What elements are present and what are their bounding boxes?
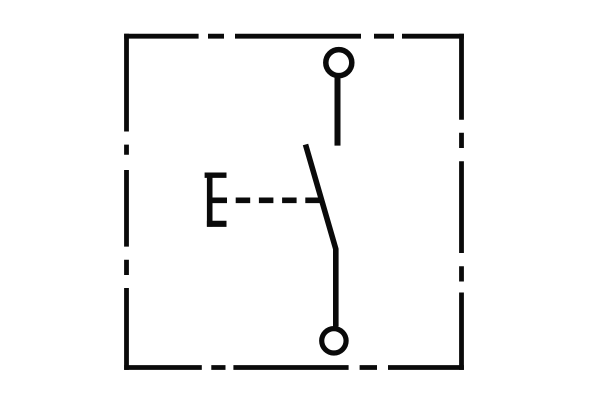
dashed linkage from actuator to blade <box>213 198 323 204</box>
enclosure dashed box: bottom edge <box>124 365 464 370</box>
wire from top terminal <box>335 78 341 146</box>
terminal circle bottom <box>322 329 346 353</box>
manual actuator E: top arm <box>205 172 227 177</box>
enclosure dashed box: top edge <box>124 34 464 39</box>
manual actuator E: bottom arm <box>207 221 227 227</box>
manual actuator E: vertical bar <box>207 173 213 227</box>
enclosure dashed box: right edge <box>459 34 464 370</box>
switch blade with wire to bottom terminal <box>306 145 336 327</box>
enclosure dashed box: left edge <box>124 34 129 370</box>
terminal circle top <box>326 50 352 76</box>
